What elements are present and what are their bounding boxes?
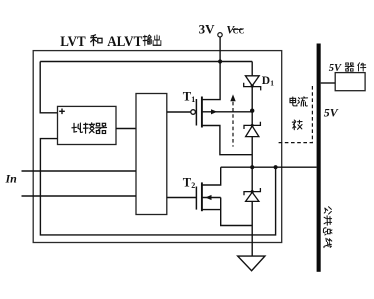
diode D1 (Schottky, anode up) <box>244 76 261 91</box>
junction dot: Vcc stem on rail <box>218 59 222 63</box>
diode D2 (Schottky clamp, cathode up) <box>244 122 260 137</box>
wire: bus to 5V device <box>321 82 336 84</box>
T1 gate bubble <box>191 110 196 115</box>
junction dot: feedback tap on output line <box>274 165 278 169</box>
wire: input line 2 <box>22 195 137 197</box>
title label: LVT 和 ALVT 输出 <box>60 34 161 50</box>
svg-text:5V: 5V <box>324 106 339 120</box>
T2 channel bar <box>201 182 203 211</box>
diode D3 (Schottky clamp, cathode up) <box>244 188 260 201</box>
buffer/driver box <box>136 94 167 215</box>
dashed arrow: blocked current path through T1 <box>230 94 235 146</box>
wire: buffer to T1 gate <box>167 111 191 113</box>
dashed wire: blocked current path from 5V bus <box>278 86 312 143</box>
Vcc terminal circle <box>218 33 222 37</box>
transistor T2 (lower MOSFET) <box>167 167 252 225</box>
svg-text:D: D <box>262 75 270 87</box>
wire: chain D3 down to ground <box>251 201 253 256</box>
5V common bus (thick) <box>317 44 321 272</box>
T1 channel bar <box>201 97 203 128</box>
outer box: LVT/ALVT device boundary <box>33 51 282 243</box>
wire: Vcc rail (top edge of inner loop) <box>40 61 252 63</box>
wire: Vcc stem from terminal down to rail <box>219 37 221 61</box>
junction dot: T1 body node <box>250 109 254 113</box>
wire: chain D2 to output node <box>251 137 253 168</box>
transistor T1 label <box>183 89 196 104</box>
T1 gate bar <box>195 99 197 126</box>
svg-text:1: 1 <box>270 79 274 88</box>
T1 body stub with arrow <box>202 111 252 113</box>
wire: diode chain vertical (Vcc corner down to D1) <box>251 62 253 76</box>
wire: buffer to T2 gate <box>167 197 197 199</box>
wire: rail to comparator plus input (left segment) <box>40 62 57 113</box>
T2 drain stub up to output line <box>202 167 221 185</box>
label D1 <box>262 75 275 87</box>
svg-text:2: 2 <box>191 181 195 190</box>
wire: chain D1 to body node <box>251 87 253 126</box>
Vcc label <box>226 22 244 36</box>
svg-text:In: In <box>5 171 18 185</box>
wire: comparator output to buffer <box>116 128 136 130</box>
svg-text:1: 1 <box>191 95 195 104</box>
wire: feedback loop from output node to comparator minus input <box>40 139 275 235</box>
wire: input line 1 <box>22 170 137 172</box>
svg-text:ALVT: ALVT <box>107 34 142 50</box>
ground <box>238 256 265 271</box>
wire: T2 body/source down to chain <box>221 198 253 226</box>
transistor T1 (upper MOSFET) <box>167 62 252 155</box>
T2 body stub with arrow <box>202 197 221 199</box>
svg-text:3V: 3V <box>199 22 216 37</box>
wire: output line to bus <box>221 166 317 168</box>
5V device box <box>335 73 365 91</box>
transistor T2 label <box>183 175 196 190</box>
label 5V 器件 <box>329 63 366 74</box>
label 电流 <box>290 97 308 106</box>
svg-text:LVT: LVT <box>60 34 86 50</box>
T1 drain stub <box>202 62 220 100</box>
label 公共总线 (rotated) <box>323 207 332 248</box>
comparator label 比较器 <box>72 123 107 134</box>
T1 source stub <box>202 126 252 155</box>
junction dot: output node on chain <box>250 165 254 169</box>
T2 source stub <box>202 209 221 211</box>
T2 gate bar <box>195 187 197 210</box>
plus input marker <box>59 109 65 115</box>
comparator U1 box <box>58 106 117 144</box>
label 被 <box>292 120 302 130</box>
svg-text:CC: CC <box>233 27 245 36</box>
wire: chain output node to D3 <box>251 167 253 191</box>
